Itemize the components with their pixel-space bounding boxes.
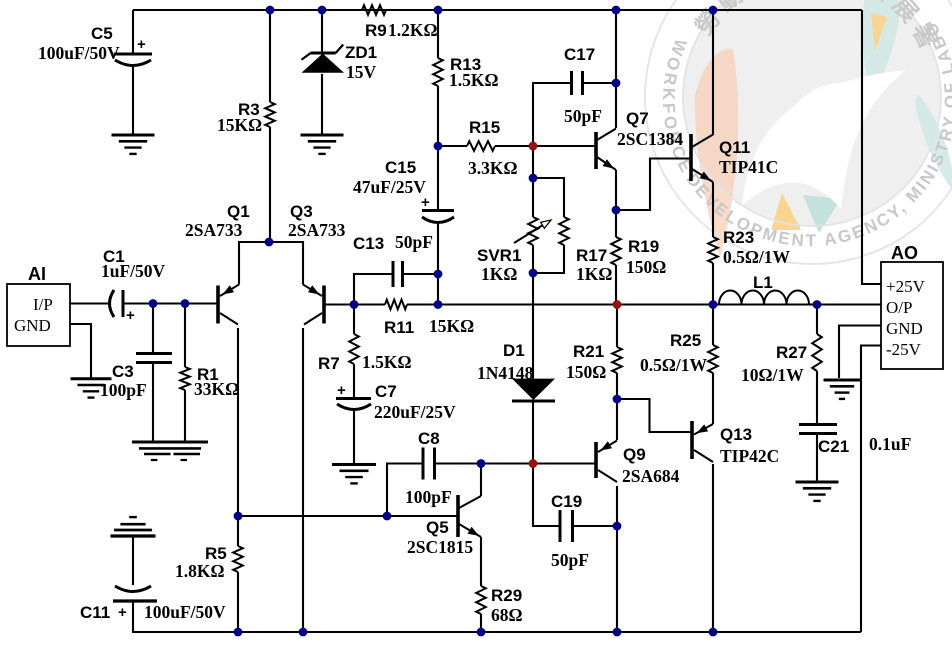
svg-text:R23: R23	[723, 228, 754, 247]
wire C21 to ground	[816, 434, 818, 481]
wire R25 top from rail	[712, 305, 714, 346]
svg-text:Q9: Q9	[623, 445, 646, 464]
wire R27 to C21	[816, 371, 818, 424]
node bottom rail junction at x=713	[709, 628, 718, 637]
wire mid output rail (Q3 base to R11 to output)	[324, 303, 385, 305]
svg-text:Q1: Q1	[227, 202, 250, 221]
node Q7 base junction (red)	[529, 142, 538, 151]
wire Q5 collector	[480, 464, 482, 497]
wire AO GND pin to ground	[839, 326, 881, 379]
wire R7 top lead	[353, 305, 355, 335]
svg-text:C17: C17	[564, 45, 595, 64]
output connector AO box	[881, 262, 943, 369]
svg-text:1.5KΩ: 1.5KΩ	[362, 352, 412, 372]
wire C17 right lead	[583, 82, 617, 84]
wire C11 top ground lead	[132, 536, 134, 585]
svg-text:220uF/25V: 220uF/25V	[374, 402, 456, 422]
transistor Q11 TIP41C NPN	[689, 134, 693, 181]
wire C3 node down	[152, 304, 154, 354]
wire D1 node down to C19	[533, 464, 560, 527]
svg-text:1.8KΩ: 1.8KΩ	[175, 561, 225, 581]
transistor Q7 2SC1384 NPN	[594, 132, 598, 169]
wire L1 right lead	[809, 303, 817, 305]
svg-text:D1: D1	[503, 341, 525, 360]
wire SVR1 top lead	[532, 146, 534, 217]
wire Q9 collector down to C19 node	[616, 486, 618, 526]
wire C8 right lead to Q5 collector node	[435, 462, 482, 464]
svg-text:47uF/25V: 47uF/25V	[353, 177, 426, 197]
wire +25V right drop to AO box	[862, 10, 881, 284]
svg-text:C7: C7	[375, 382, 397, 401]
wire Q1 collector down	[237, 328, 239, 516]
svg-text:1uF/50V: 1uF/50V	[101, 261, 166, 281]
node bottom rail junction at x=617	[613, 628, 622, 637]
svg-text:1KΩ: 1KΩ	[481, 264, 517, 284]
svg-text:100uF/50V: 100uF/50V	[144, 602, 226, 622]
resistor R21	[612, 347, 622, 373]
wire L1 left lead	[713, 303, 719, 305]
wire bottom -25V rail	[133, 601, 861, 632]
wire R13 to R15 node	[437, 86, 439, 146]
svg-text:2SA733: 2SA733	[185, 220, 243, 240]
wire R17 parallel bottom	[533, 245, 564, 273]
svg-text:R27: R27	[776, 343, 807, 362]
svg-text:O/P: O/P	[886, 298, 912, 317]
wire output rail right of R11	[407, 303, 881, 305]
node top rail junction at x=322	[318, 6, 327, 15]
inductor L1	[719, 291, 809, 305]
wire Q3 base to node	[324, 303, 354, 305]
svg-text:R21: R21	[573, 342, 604, 361]
wire C17 left lead	[533, 83, 572, 146]
wire D1 cathode to node	[532, 401, 534, 464]
shared ground for C3 and R1	[132, 441, 208, 444]
ground for C5	[112, 134, 155, 137]
wire output node to AO O/P	[817, 303, 881, 305]
svg-text:2SA684: 2SA684	[622, 466, 680, 486]
node R1 junction	[181, 299, 190, 308]
svg-text:ZD1: ZD1	[345, 43, 377, 62]
transistor Q9 2SA684 PNP	[594, 442, 598, 478]
node D1 bottom junction (red)	[529, 459, 538, 468]
wire R29 bottom to rail	[480, 614, 482, 632]
node C8 left junction	[383, 512, 392, 521]
resistor R11	[385, 300, 407, 310]
wire Q5 collector node to D1 node to Q9 base	[481, 462, 596, 464]
wire R17 parallel top	[533, 178, 564, 217]
ground for AI GND pin	[71, 377, 112, 380]
svg-text:0.5Ω/1W: 0.5Ω/1W	[723, 247, 791, 267]
svg-text:50pF: 50pF	[564, 106, 602, 126]
capacitor C19	[559, 510, 562, 542]
capacitor C5	[114, 53, 152, 56]
node Q9 emitter junction	[613, 395, 622, 404]
wire C13 parallel right	[403, 273, 439, 275]
svg-text:-25V: -25V	[886, 340, 922, 359]
wire -25V from AO box down	[861, 346, 881, 633]
svg-text:TIP41C: TIP41C	[719, 157, 778, 177]
wire +25V top rail	[133, 9, 862, 11]
zener diode ZD1	[302, 54, 345, 73]
wire R1 bottom to common ground	[184, 390, 186, 442]
node Q9 collector / C19 junction	[613, 522, 622, 531]
svg-text:AI: AI	[28, 264, 46, 284]
svg-text:33KΩ: 33KΩ	[194, 379, 239, 399]
ground for ZD1	[301, 134, 344, 137]
node Q1 collector / R5 junction	[234, 512, 243, 521]
resistor R15	[467, 141, 495, 151]
svg-text:C21: C21	[818, 437, 849, 456]
svg-text:+: +	[118, 604, 127, 621]
resistor R13	[433, 58, 443, 86]
node R23 bottom rail junction	[709, 300, 718, 309]
svg-text:1.2KΩ: 1.2KΩ	[388, 20, 438, 40]
svg-text:R17: R17	[576, 246, 607, 265]
node bottom rail junction at x=238	[234, 628, 243, 637]
svg-text:C3: C3	[112, 362, 134, 381]
wire Q11 emitter to R23	[712, 182, 714, 237]
wire C8 left lead	[387, 464, 423, 517]
ground for C7	[332, 463, 376, 466]
svg-text:150Ω: 150Ω	[626, 257, 666, 277]
wire R7 to C7	[353, 364, 355, 398]
svg-text:R15: R15	[469, 118, 500, 137]
wire Q5 emitter to R29	[480, 537, 482, 586]
svg-text:68Ω: 68Ω	[491, 605, 523, 625]
node top rail junction at x=438	[434, 6, 443, 15]
wire Q1 emitter up to common node	[239, 242, 269, 285]
svg-text:R25: R25	[670, 331, 701, 350]
node C15 bottom rail junction	[434, 300, 443, 309]
svg-text:GND: GND	[14, 316, 51, 335]
capacitor C15	[422, 209, 454, 212]
svg-text:AO: AO	[891, 243, 918, 263]
wire Q13 collector to bottom rail	[712, 464, 714, 632]
ground for C21	[796, 481, 839, 484]
node R19 bottom rail junction (red)	[613, 300, 622, 309]
node L1 right output junction	[813, 300, 822, 309]
svg-text:+: +	[137, 36, 146, 53]
svg-text:15V: 15V	[346, 62, 377, 82]
wire R15 right lead to Q7 base	[495, 145, 596, 147]
svg-text:Q11: Q11	[719, 138, 750, 157]
wire C1 to Q1 base	[123, 302, 218, 304]
capacitor C1	[110, 290, 115, 317]
wire input line AI I/P to C1	[70, 302, 111, 304]
node top rail junction at x=616	[612, 6, 621, 15]
node bottom rail junction at x=303	[299, 628, 308, 637]
resistor R17	[559, 217, 569, 245]
svg-text:R29: R29	[491, 586, 522, 605]
svg-text:2SC1815: 2SC1815	[407, 537, 473, 557]
svg-text:15KΩ: 15KΩ	[217, 115, 262, 135]
wire R13 top lead	[437, 10, 439, 58]
node R15/R13/C15 junction	[434, 142, 443, 151]
node SVR1 top junction	[529, 174, 538, 183]
svg-text:50pF: 50pF	[551, 550, 589, 570]
wire Q3 emitter up to common node	[269, 242, 303, 285]
resistor R7	[349, 334, 359, 364]
node Q3 base / R7 / C13 junction	[350, 300, 359, 309]
svg-text:R9: R9	[365, 21, 387, 40]
wire Q7 emitter to R19	[615, 170, 617, 237]
node Q7 emitter junction	[612, 206, 621, 215]
wire R25 bottom to Q13 emitter	[712, 373, 714, 424]
node C13 right junction	[434, 270, 443, 279]
wire R3 bottom lead to Q1/Q3 emitters	[269, 127, 271, 242]
node Q1/Q3 common emitter	[265, 238, 274, 247]
wire ZD1 bottom lead to ground	[321, 74, 323, 135]
svg-text:I/P: I/P	[33, 295, 53, 314]
wire R5 bottom to rail	[237, 572, 239, 632]
resistor R1	[180, 367, 190, 390]
wire R1 top lead	[184, 304, 186, 368]
wire C13 parallel left	[354, 274, 393, 305]
wire ZD1 top lead	[321, 10, 323, 52]
node bottom rail junction at x=481	[477, 628, 486, 637]
svg-text:3.3KΩ: 3.3KΩ	[468, 158, 518, 178]
svg-text:TIP42C: TIP42C	[720, 446, 779, 466]
svg-text:Q5: Q5	[426, 518, 449, 537]
wire Q11 collector to top rail	[712, 10, 714, 135]
capacitor C7	[336, 397, 371, 400]
node C3 junction	[149, 299, 158, 308]
wire R27 top from output node	[816, 305, 818, 335]
node Q5 collector junction	[477, 459, 486, 468]
wire C15 to C13 node to rail	[437, 224, 439, 305]
resistor R9	[362, 5, 386, 15]
capacitor C3	[136, 352, 172, 355]
diode D1 1N4148	[512, 379, 555, 400]
wire C3 to common ground	[152, 362, 154, 442]
wire C19 right lead	[573, 525, 618, 527]
svg-text:L1: L1	[753, 273, 773, 292]
input connector AI box	[7, 284, 70, 346]
capacitor C21	[799, 423, 837, 426]
resistor R3	[265, 102, 275, 127]
svg-text:1KΩ: 1KΩ	[576, 264, 612, 284]
svg-text:1.5KΩ: 1.5KΩ	[449, 70, 499, 90]
wire Q5 base line	[238, 515, 458, 517]
wire C5 top lead	[132, 10, 134, 54]
svg-text:Q3: Q3	[290, 202, 313, 221]
svg-text:100pF: 100pF	[405, 487, 452, 507]
resistor R25	[708, 345, 718, 373]
wire Q9 emitter node to Q13 base	[617, 399, 692, 432]
svg-text:2SA733: 2SA733	[288, 220, 346, 240]
svg-text:GND: GND	[886, 319, 923, 338]
capacitor C17	[570, 71, 573, 95]
capacitor C8	[422, 448, 425, 480]
svg-text:0.1uF: 0.1uF	[869, 434, 911, 454]
wire Q3 collector down to rail	[302, 328, 304, 632]
resistor R23	[708, 237, 718, 263]
svg-text:SVR1: SVR1	[477, 246, 521, 265]
node top rail junction at x=713	[709, 6, 718, 15]
svg-text:15KΩ: 15KΩ	[429, 316, 474, 336]
svg-text:Q13: Q13	[720, 425, 752, 444]
ground for AO GND pin	[824, 379, 861, 382]
svg-text:C13: C13	[353, 234, 384, 253]
wire SVR1 bottom lead	[532, 245, 534, 273]
wire node to C15	[437, 146, 439, 210]
wire C5 bottom lead to ground	[132, 67, 134, 135]
wire R21 top from rail	[616, 305, 618, 348]
svg-text:100pF: 100pF	[100, 380, 147, 400]
wire R15 left lead	[438, 145, 467, 147]
svg-text:Q7: Q7	[626, 109, 649, 128]
transistor Q1 2SA733 PNP	[216, 286, 220, 324]
svg-text:10Ω/1W: 10Ω/1W	[741, 365, 804, 385]
svg-text:150Ω: 150Ω	[566, 362, 606, 382]
wire R23 bottom to rail	[712, 263, 714, 305]
wire Q9 collector to bottom rail	[616, 526, 618, 632]
capacitor C11	[115, 586, 151, 592]
svg-text:+: +	[126, 307, 135, 324]
wire C7 to ground	[353, 408, 355, 464]
svg-text:+25V: +25V	[886, 277, 926, 296]
wire Q7 collector to top rail	[615, 10, 617, 128]
wire SVR1 node down through rail to D1	[532, 273, 534, 379]
svg-text:1N4148: 1N4148	[477, 363, 534, 383]
inverted ground above C11	[129, 516, 137, 518]
wire R21 bottom to Q9 emitter node	[616, 373, 618, 399]
wire R5 top lead	[237, 516, 239, 546]
svg-text:C11: C11	[80, 603, 110, 622]
node top rail junction at x=270	[266, 6, 275, 15]
svg-text:C5: C5	[91, 24, 113, 43]
resistor R19	[611, 237, 621, 265]
node SVR1 bottom junction	[529, 269, 538, 278]
resistor R29	[476, 586, 486, 614]
svg-text:50pF: 50pF	[395, 232, 433, 252]
wire AI GND pin	[70, 324, 91, 378]
wire Q9 emitter to node	[616, 399, 618, 440]
svg-text:R7: R7	[318, 354, 340, 373]
svg-text:2SC1384: 2SC1384	[617, 129, 683, 149]
capacitor C13	[392, 261, 395, 287]
decorative watermark emblem (not labeled further)	[0, 0, 952, 264]
svg-text:0.5Ω/1W: 0.5Ω/1W	[640, 355, 708, 375]
resistor R27	[812, 334, 822, 371]
svg-text:R19: R19	[628, 237, 659, 256]
wire R3 top lead	[269, 10, 271, 102]
transistor Q5 2SC1815 NPN	[456, 495, 460, 537]
svg-text:C8: C8	[418, 429, 440, 448]
transistor Q13 TIP42C PNP	[690, 421, 694, 459]
svg-text:100uF/50V: 100uF/50V	[38, 43, 120, 63]
svg-text:+: +	[421, 194, 430, 211]
svg-text:R11: R11	[384, 318, 414, 337]
svg-text:+: +	[337, 382, 346, 399]
resistor R5	[233, 546, 243, 572]
variable resistor SVR1	[528, 217, 538, 245]
wire R19 bottom to rail	[615, 265, 617, 305]
svg-text:C19: C19	[551, 492, 582, 511]
svg-text:C15: C15	[385, 158, 416, 177]
node C17 right junction	[612, 79, 621, 88]
wire Q7 emitter node to Q11 base	[616, 159, 691, 211]
transistor Q3 2SA733 PNP	[322, 286, 326, 324]
